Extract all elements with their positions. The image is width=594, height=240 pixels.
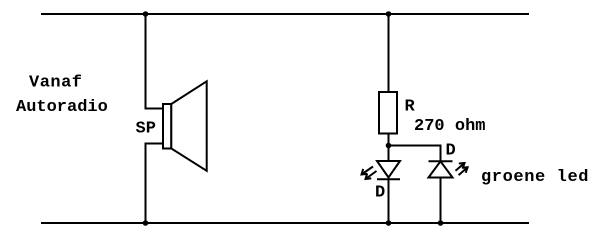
svg-text:D: D [375, 184, 385, 203]
wire bottom rail [41, 222, 529, 224]
svg-text:Vanaf: Vanaf [29, 74, 82, 93]
node junction bottom LED D1 [386, 220, 392, 226]
svg-text:R: R [405, 98, 416, 117]
wire speaker top drop [146, 14, 164, 109]
node junction below resistor [386, 143, 392, 149]
node junction top speaker [143, 11, 149, 17]
node junction bottom LED D2 [438, 220, 444, 226]
svg-text:270 ohm: 270 ohm [414, 117, 486, 136]
wire resistor to node [388, 134, 390, 162]
svg-text:D: D [446, 141, 456, 160]
svg-text:SP: SP [136, 120, 156, 139]
resistor R [379, 92, 397, 134]
wire LED D2 bottom [440, 178, 442, 224]
LED D2 right [429, 161, 468, 177]
speaker SP [163, 81, 207, 171]
wire resistor top [388, 14, 390, 92]
wire top rail [41, 13, 529, 15]
svg-text:groene led: groene led [481, 168, 589, 187]
wire speaker bottom drop [146, 144, 164, 224]
LED D1 left [362, 161, 401, 179]
node junction top resistor [386, 11, 392, 17]
node junction bottom speaker [143, 220, 149, 226]
wire node to LED D2 [389, 146, 441, 162]
wire LED D1 bottom [388, 179, 390, 223]
svg-text:Autoradio: Autoradio [16, 98, 108, 117]
